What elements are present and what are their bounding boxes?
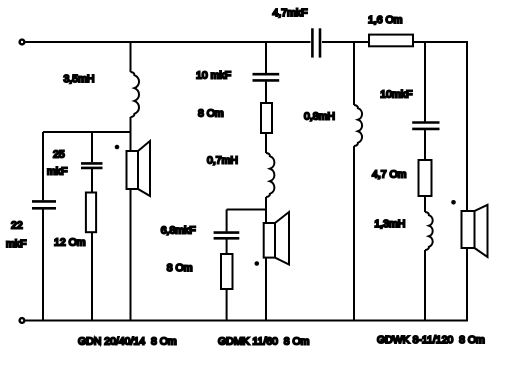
wire mid speaker to bottom rail: [265, 258, 267, 321]
svg-text:8 Om: 8 Om: [167, 262, 193, 274]
wire node down to 10mkF (tweeter shunt): [424, 42, 426, 121]
wire 3,5mH to woofer: [130, 117, 132, 151]
wire 0,8mH to bottom rail: [353, 146, 355, 321]
wire node down to 6,8mkF: [226, 210, 228, 232]
wire top rail to 0,8mH: [353, 42, 355, 105]
wire node to 6,8mkF shunt: [227, 209, 266, 211]
wire 8 Om to 0,7mH: [265, 133, 267, 153]
svg-text:3,5mH: 3,5mH: [64, 73, 95, 85]
wire top rail down to tweeter: [466, 42, 468, 211]
wire node down to 22mkF: [42, 132, 44, 200]
svg-text:GDWK 8-11/120 8 Om: GDWK 8-11/120 8 Om: [377, 334, 485, 346]
terminal input -: [20, 318, 25, 323]
speaker GDMK 11/60 midrange: [264, 212, 289, 265]
polarity dot tweeter: [451, 200, 456, 205]
polarity dot midrange: [254, 261, 259, 266]
wire 10mkF to 4,7 Om: [424, 130, 426, 161]
capacitor 10 mkF: [253, 73, 280, 76]
wire 22mkF to bottom rail: [42, 210, 44, 321]
capacitor 22 mkF: [32, 200, 56, 203]
wire bottom rail: [26, 320, 469, 322]
wire node down to 25mkF: [91, 132, 93, 162]
wire 12 Om to bottom rail: [91, 232, 93, 321]
svg-text:4,7 Om: 4,7 Om: [372, 169, 407, 181]
wire 1,3mH to bottom rail: [424, 250, 426, 321]
wire top rail to 3,5mH: [130, 42, 132, 72]
speaker GDWK 8-11/120 tweeter: [462, 205, 488, 257]
capacitor 4,7mkF (series): [311, 28, 314, 57]
resistor 4,7 Om: [419, 160, 432, 196]
svg-text:GDN 20/40/14 8 Om: GDN 20/40/14 8 Om: [78, 335, 177, 347]
inductor 3,5mH: [131, 72, 140, 117]
resistor 12 Om: [86, 193, 96, 233]
svg-text:4,7mkF: 4,7mkF: [273, 7, 308, 19]
wire 0,7mH to mid speaker: [265, 197, 267, 223]
inductor 0,8mH: [354, 105, 362, 146]
wire top rail right segment: [322, 41, 468, 43]
wire 8 Om shunt to bottom rail: [226, 289, 228, 321]
wire woofer to bottom rail: [130, 189, 132, 321]
svg-text:6,8mkF: 6,8mkF: [161, 224, 196, 236]
svg-text:mkF: mkF: [47, 165, 67, 177]
resistor 1,6 Om (series): [369, 35, 413, 47]
wire node to RC shunt: [43, 131, 131, 133]
wire tweeter to bottom rail: [466, 248, 468, 321]
capacitor 10mkF (tweeter shunt): [412, 121, 439, 124]
wire top rail left segment: [26, 41, 311, 43]
svg-text:1,3mH: 1,3mH: [374, 218, 405, 230]
wire 4,7 Om to 1,3mH: [424, 196, 426, 212]
svg-text:22: 22: [11, 219, 23, 231]
wire top rail to 10mkF: [265, 42, 267, 73]
speaker GDN 20/40/14 woofer: [127, 141, 151, 196]
svg-text:GDMK 11/60 8 Om: GDMK 11/60 8 Om: [218, 335, 310, 347]
polarity dot woofer: [115, 145, 120, 150]
svg-text:0,7mH: 0,7mH: [207, 155, 238, 167]
capacitor 25 mkF: [81, 162, 103, 165]
resistor 8 Om (shunt): [221, 254, 233, 289]
svg-text:1,6 Om: 1,6 Om: [368, 14, 403, 26]
wire 10mkF to 8 Om: [265, 82, 267, 103]
terminal input +: [20, 40, 25, 45]
svg-text:10 mkF: 10 mkF: [196, 69, 231, 81]
svg-text:mkF: mkF: [6, 238, 26, 250]
svg-text:0,8mH: 0,8mH: [304, 110, 335, 122]
svg-text:8 Om: 8 Om: [198, 107, 224, 119]
svg-text:10mkF: 10mkF: [380, 88, 412, 100]
resistor 8 Om (mid): [261, 103, 272, 133]
svg-text:12 Om: 12 Om: [54, 236, 86, 248]
wire 25mkF to 12 Om: [91, 169, 93, 193]
capacitor 6,8mkF: [214, 231, 240, 234]
inductor 1,3mH: [425, 212, 433, 250]
inductor 0,7mH: [266, 153, 274, 197]
svg-text:25: 25: [53, 148, 65, 160]
wire 6,8mkF to 8 Om (shunt): [226, 240, 228, 255]
